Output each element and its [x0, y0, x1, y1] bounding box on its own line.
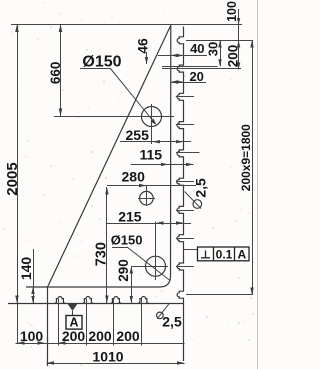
svg-text:2,5: 2,5: [162, 314, 182, 330]
svg-text:20: 20: [189, 69, 203, 84]
svg-text:46: 46: [135, 38, 151, 54]
svg-text:215: 215: [118, 209, 142, 225]
svg-text:100: 100: [225, 1, 239, 22]
svg-text:200: 200: [116, 328, 140, 344]
svg-text:0.1: 0.1: [216, 247, 233, 261]
svg-text:100: 100: [20, 328, 44, 344]
svg-text:1010: 1010: [92, 349, 123, 365]
svg-text:Ø150: Ø150: [82, 54, 121, 71]
svg-text:2005: 2005: [4, 162, 21, 195]
svg-text:200: 200: [225, 45, 240, 68]
svg-text:30: 30: [206, 42, 221, 56]
svg-text:730: 730: [94, 242, 110, 266]
svg-text:660: 660: [48, 62, 63, 85]
svg-text:Ø150: Ø150: [111, 233, 143, 248]
svg-text:255: 255: [126, 127, 150, 143]
svg-text:A: A: [237, 247, 246, 261]
svg-text:40: 40: [190, 41, 204, 56]
svg-text:280: 280: [122, 169, 146, 185]
svg-text:2,5: 2,5: [193, 178, 209, 198]
svg-text:140: 140: [18, 257, 34, 281]
svg-text:200: 200: [88, 328, 112, 344]
svg-text:200: 200: [62, 328, 86, 344]
svg-text:290: 290: [116, 259, 131, 282]
svg-text:115: 115: [140, 147, 163, 163]
svg-text:200x9=1800: 200x9=1800: [239, 124, 253, 191]
